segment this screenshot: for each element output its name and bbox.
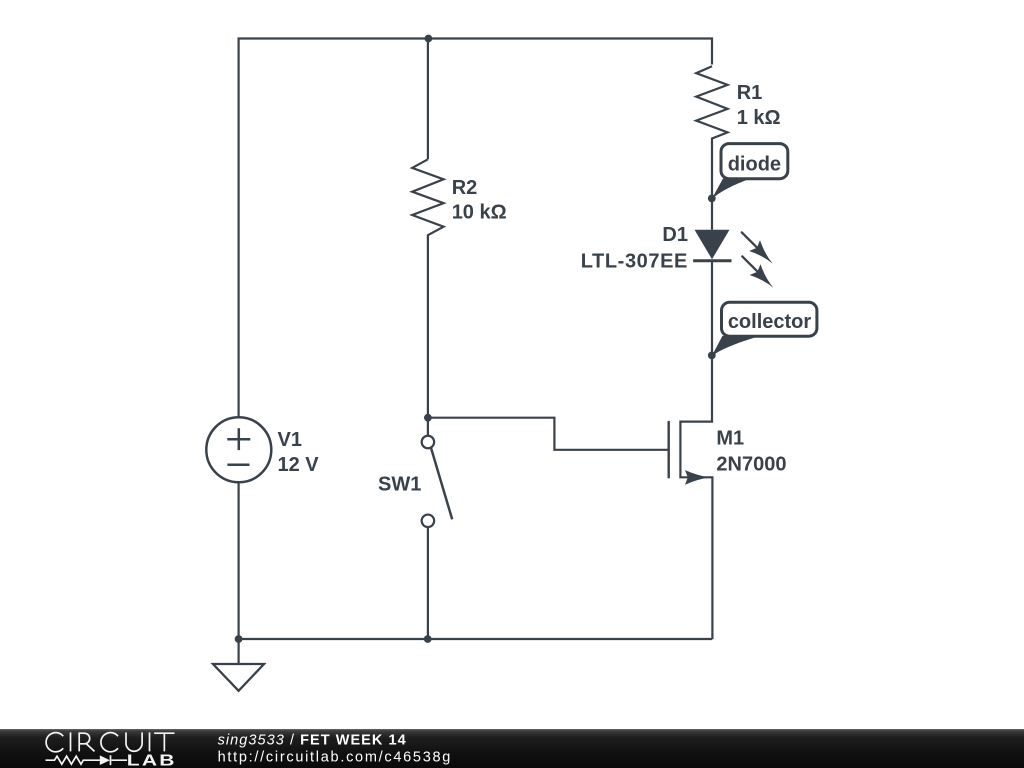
svg-text:diode: diode bbox=[728, 154, 781, 176]
svg-text:2N7000: 2N7000 bbox=[716, 453, 786, 475]
svg-text:SW1: SW1 bbox=[378, 473, 421, 495]
svg-text:V1: V1 bbox=[278, 429, 302, 451]
svg-text:12 V: 12 V bbox=[278, 454, 320, 476]
svg-text:collector: collector bbox=[728, 311, 812, 333]
svg-text:M1: M1 bbox=[716, 428, 744, 450]
svg-text:http://circuitlab.com/c46538g: http://circuitlab.com/c46538g bbox=[218, 750, 452, 766]
svg-text:10 kΩ: 10 kΩ bbox=[452, 202, 507, 224]
svg-text:R1: R1 bbox=[737, 82, 763, 104]
svg-text:LAB: LAB bbox=[127, 751, 177, 768]
svg-text:1 kΩ: 1 kΩ bbox=[737, 107, 781, 129]
svg-text:R2: R2 bbox=[452, 177, 478, 199]
svg-text:D1: D1 bbox=[662, 224, 688, 246]
svg-text:LTL-307EE: LTL-307EE bbox=[581, 251, 688, 273]
svg-text:sing3533 / FET WEEK 14: sing3533 / FET WEEK 14 bbox=[218, 733, 407, 749]
